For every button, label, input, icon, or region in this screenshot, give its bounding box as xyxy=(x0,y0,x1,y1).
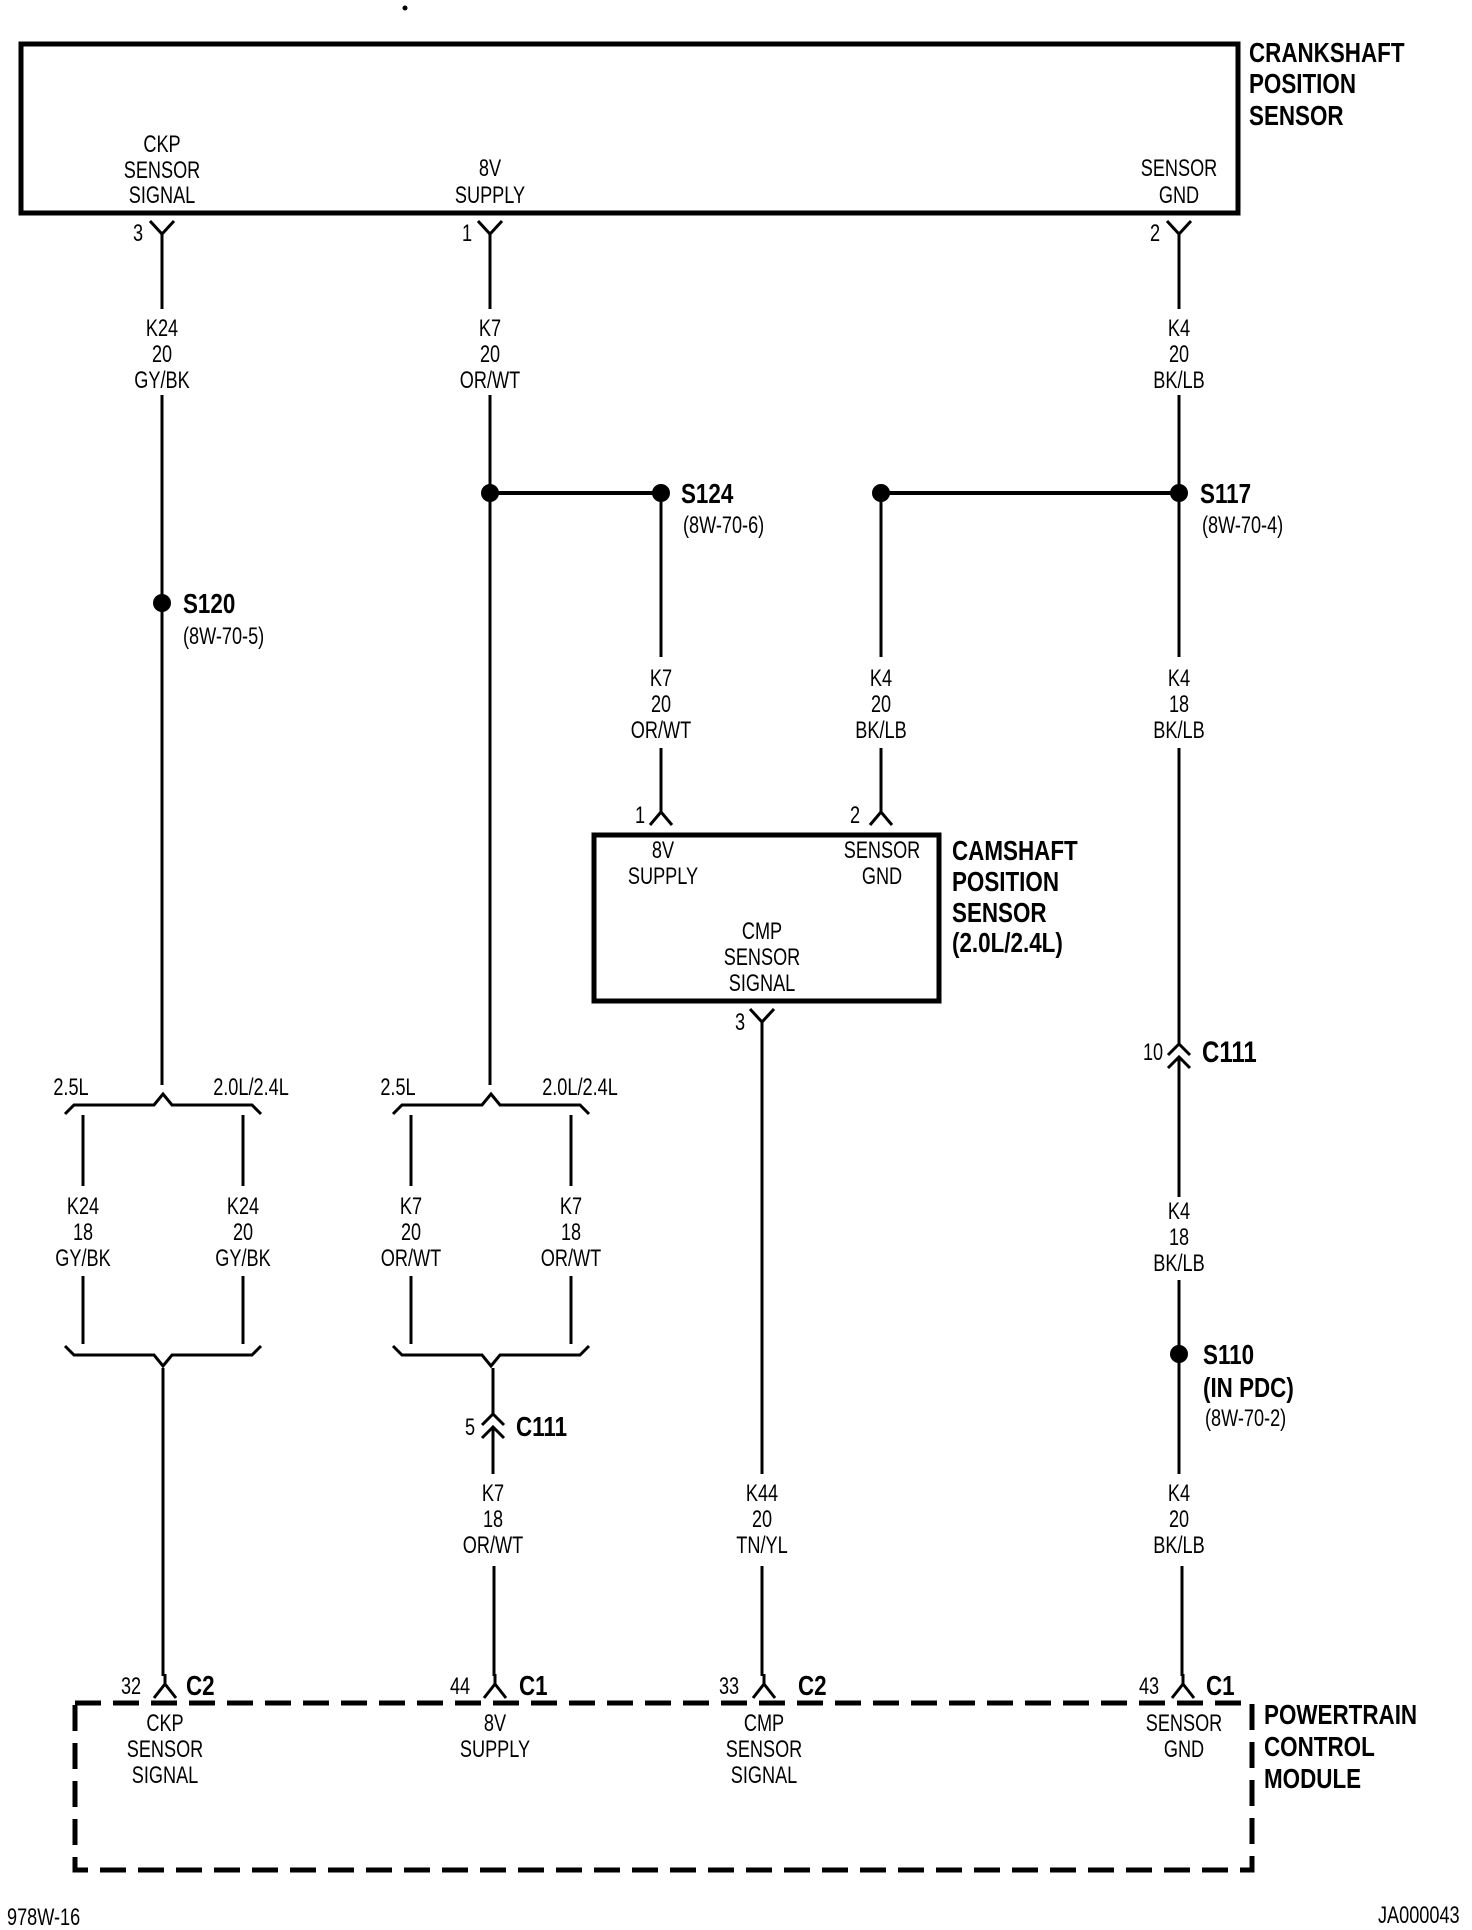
splice S110 xyxy=(1170,1339,1294,1432)
svg-text:18: 18 xyxy=(1169,1224,1189,1251)
svg-text:SENSOR: SENSOR xyxy=(127,1736,204,1763)
merge brace left xyxy=(65,1346,261,1366)
svg-text:CKP: CKP xyxy=(143,131,180,158)
wire label K7 20 OR/WT branch xyxy=(381,1193,442,1272)
svg-text:18: 18 xyxy=(483,1506,503,1533)
svg-text:SENSOR: SENSOR xyxy=(1249,100,1344,131)
svg-text:K7: K7 xyxy=(479,315,501,342)
wire C111 to label right xyxy=(1178,1058,1181,1197)
svg-text:POSITION: POSITION xyxy=(1249,68,1356,99)
svg-text:18: 18 xyxy=(1169,691,1189,718)
svg-text:POSITION: POSITION xyxy=(952,866,1059,897)
8V supply pin label xyxy=(455,155,525,209)
svg-text:20: 20 xyxy=(401,1219,421,1246)
svg-text:K7: K7 xyxy=(400,1193,422,1220)
svg-text:2.0L/2.4L: 2.0L/2.4L xyxy=(542,1074,618,1101)
svg-text:S117: S117 xyxy=(1200,478,1251,509)
pin 44 C1 connector xyxy=(450,1670,548,1701)
svg-text:20: 20 xyxy=(480,341,500,368)
cam pin 3 connector xyxy=(735,1009,774,1036)
wire to splice S110 xyxy=(1178,1280,1181,1354)
svg-text:OR/WT: OR/WT xyxy=(381,1245,442,1272)
svg-text:S120: S120 xyxy=(183,588,235,619)
wire to connector C111 pin 10 xyxy=(1178,748,1181,1044)
wire segment above cam pin 1 xyxy=(660,748,663,810)
camshaft position sensor title xyxy=(952,835,1078,958)
svg-text:K24: K24 xyxy=(146,315,178,342)
svg-text:(8W-70-6): (8W-70-6) xyxy=(683,512,764,539)
crankshaft position sensor box xyxy=(21,44,1238,213)
splice S124 xyxy=(652,478,764,539)
PCM CMP sensor signal label xyxy=(726,1710,803,1789)
wire label K24 20 GY/BK branch xyxy=(215,1193,270,1272)
svg-text:1: 1 xyxy=(635,802,645,829)
svg-text:(8W-70-2): (8W-70-2) xyxy=(1205,1405,1286,1432)
svg-text:BK/LB: BK/LB xyxy=(855,717,906,744)
svg-text:SENSOR: SENSOR xyxy=(724,944,801,971)
powertrain control module title xyxy=(1264,1699,1417,1794)
svg-text:978W-16: 978W-16 xyxy=(7,1904,80,1930)
CKP sensor signal pin label xyxy=(124,131,201,209)
crankshaft position sensor title xyxy=(1249,37,1405,131)
branch wire 2.5L left lower xyxy=(82,1276,85,1344)
connector C111 pin 10 xyxy=(1143,1036,1257,1069)
svg-text:BK/LB: BK/LB xyxy=(1153,1532,1204,1559)
svg-text:CMP: CMP xyxy=(742,918,782,945)
branch wire 2.5L mid lower xyxy=(410,1276,413,1344)
svg-text:20: 20 xyxy=(152,341,172,368)
branch wire 2.5L mid xyxy=(410,1115,413,1186)
wire S124 to camshaft pin 1 xyxy=(660,493,663,657)
svg-text:OR/WT: OR/WT xyxy=(463,1532,524,1559)
branch wire 2.0L left lower xyxy=(242,1276,245,1344)
svg-text:MODULE: MODULE xyxy=(1264,1763,1361,1794)
branch wire 2.0L mid xyxy=(570,1115,573,1186)
wire segment above cam pin 2 xyxy=(880,748,883,810)
cam 8V supply pin label xyxy=(628,837,698,890)
wire K7 mid segment xyxy=(489,395,492,1085)
svg-text:3: 3 xyxy=(133,220,143,247)
svg-text:SIGNAL: SIGNAL xyxy=(132,1762,199,1789)
svg-text:CONTROL: CONTROL xyxy=(1264,1731,1375,1762)
pin 32 C2 connector xyxy=(121,1670,215,1701)
svg-text:20: 20 xyxy=(871,691,891,718)
splice S117 xyxy=(1170,478,1283,539)
svg-text:CRANKSHAFT: CRANKSHAFT xyxy=(1249,37,1405,68)
wire label K24 18 GY/BK xyxy=(55,1193,110,1272)
svg-text:10: 10 xyxy=(1143,1039,1163,1066)
svg-text:8V: 8V xyxy=(652,837,674,864)
svg-text:K4: K4 xyxy=(870,665,892,692)
wire label K24 20 GY/BK xyxy=(134,315,189,394)
branch wire 2.0L mid lower xyxy=(570,1276,573,1344)
wire K44 lower segment xyxy=(761,1566,764,1676)
wire label K4 20 BK/LB xyxy=(1153,315,1204,394)
svg-text:SIGNAL: SIGNAL xyxy=(731,1762,798,1789)
svg-text:SIGNAL: SIGNAL xyxy=(729,970,796,997)
pin 33 C2 connector xyxy=(719,1670,827,1701)
svg-text:SENSOR: SENSOR xyxy=(726,1736,803,1763)
svg-text:GY/BK: GY/BK xyxy=(134,367,189,394)
wire to connector C111 pin 5 xyxy=(492,1368,495,1414)
wire S110 down xyxy=(1178,1354,1181,1474)
svg-text:CMP: CMP xyxy=(744,1710,784,1737)
svg-text:5: 5 xyxy=(465,1414,475,1441)
svg-text:S124: S124 xyxy=(681,478,734,509)
registration dot xyxy=(403,6,408,11)
svg-text:20: 20 xyxy=(233,1219,253,1246)
svg-text:GY/BK: GY/BK xyxy=(215,1245,270,1272)
svg-text:JA000043: JA000043 xyxy=(1378,1902,1460,1929)
wire label K4 18 BK/LB lower xyxy=(1153,1198,1204,1277)
PCM 8V supply label xyxy=(460,1710,530,1763)
svg-text:33: 33 xyxy=(719,1673,739,1700)
wire to PCM pin 44 xyxy=(493,1566,496,1676)
svg-text:43: 43 xyxy=(1139,1673,1159,1700)
cam pin 2 connector xyxy=(850,802,892,829)
PCM sensor gnd label xyxy=(1146,1710,1223,1763)
wire junction to S117 xyxy=(881,491,1179,495)
svg-text:K4: K4 xyxy=(1168,665,1190,692)
wire K44 long segment xyxy=(761,1022,764,1474)
branch wire 2.0L left xyxy=(242,1115,245,1186)
wire C111 to label xyxy=(492,1428,495,1474)
pin 3 connector xyxy=(133,220,174,247)
wire to PCM pin 43 xyxy=(1181,1566,1184,1676)
svg-text:20: 20 xyxy=(651,691,671,718)
svg-text:20: 20 xyxy=(752,1506,772,1533)
camshaft position sensor box xyxy=(594,835,939,1001)
svg-text:(2.0L/2.4L): (2.0L/2.4L) xyxy=(952,927,1063,958)
PCM CKP sensor signal label xyxy=(127,1710,204,1789)
svg-text:18: 18 xyxy=(73,1219,93,1246)
svg-text:OR/WT: OR/WT xyxy=(631,717,692,744)
svg-text:SUPPLY: SUPPLY xyxy=(455,182,525,209)
sheet number 978W-16 xyxy=(7,1904,80,1930)
wire label K7 18 OR/WT lower xyxy=(463,1480,524,1559)
wire K24 upper segment xyxy=(161,242,164,309)
svg-text:SENSOR: SENSOR xyxy=(1141,155,1218,182)
wire label K4 20 BK/LB lower xyxy=(1153,1480,1204,1559)
svg-text:C2: C2 xyxy=(186,1670,215,1701)
svg-text:S110: S110 xyxy=(1203,1339,1254,1370)
svg-text:SENSOR: SENSOR xyxy=(844,837,921,864)
wire label K7 20 OR/WT cam xyxy=(631,665,692,744)
engine split brace left xyxy=(53,1074,288,1114)
wire label K4 20 BK/LB cam xyxy=(855,665,906,744)
svg-text:SENSOR: SENSOR xyxy=(124,157,201,184)
svg-text:32: 32 xyxy=(121,1673,141,1700)
svg-text:(8W-70-4): (8W-70-4) xyxy=(1202,512,1283,539)
junction dot 8V supply xyxy=(481,484,499,502)
svg-text:SUPPLY: SUPPLY xyxy=(628,863,698,890)
svg-text:C111: C111 xyxy=(1202,1036,1257,1069)
svg-text:2.5L: 2.5L xyxy=(380,1074,415,1101)
svg-text:2: 2 xyxy=(1150,220,1160,247)
svg-text:3: 3 xyxy=(735,1009,745,1036)
svg-text:GY/BK: GY/BK xyxy=(55,1245,110,1272)
svg-text:GND: GND xyxy=(1164,1736,1204,1763)
svg-text:C111: C111 xyxy=(516,1411,567,1442)
wire label K44 20 TN/YL xyxy=(736,1480,787,1559)
svg-text:OR/WT: OR/WT xyxy=(541,1245,602,1272)
wire S117 down xyxy=(1178,493,1181,657)
svg-text:K4: K4 xyxy=(1168,315,1190,342)
svg-text:2.5L: 2.5L xyxy=(53,1074,88,1101)
svg-text:OR/WT: OR/WT xyxy=(460,367,521,394)
svg-text:CKP: CKP xyxy=(146,1710,183,1737)
svg-text:(8W-70-5): (8W-70-5) xyxy=(183,623,264,650)
engine split brace mid xyxy=(380,1074,617,1114)
svg-text:BK/LB: BK/LB xyxy=(1153,717,1204,744)
wire to PCM pin 32 xyxy=(162,1368,165,1676)
pin 1 connector xyxy=(462,220,502,247)
svg-text:SUPPLY: SUPPLY xyxy=(460,1736,530,1763)
svg-text:(IN PDC): (IN PDC) xyxy=(1203,1372,1294,1403)
splice S120 xyxy=(153,588,264,650)
svg-text:SIGNAL: SIGNAL xyxy=(129,182,196,209)
pin 2 connector xyxy=(1150,220,1191,247)
svg-text:SENSOR: SENSOR xyxy=(952,897,1047,928)
powertrain control module box xyxy=(75,1703,1252,1870)
svg-text:8V: 8V xyxy=(484,1710,506,1737)
connector C111 pin 5 xyxy=(465,1411,567,1442)
wire K7 upper segment xyxy=(489,242,492,309)
svg-text:K24: K24 xyxy=(227,1193,259,1220)
drawing number JA000043 xyxy=(1378,1902,1460,1929)
svg-text:K4: K4 xyxy=(1168,1198,1190,1225)
svg-text:K24: K24 xyxy=(67,1193,99,1220)
wire K24 mid segment xyxy=(161,395,164,1085)
wire K4 upper segment xyxy=(1178,242,1181,309)
wire junction to camshaft pin 2 xyxy=(880,493,883,657)
svg-text:C2: C2 xyxy=(798,1670,827,1701)
svg-text:K7: K7 xyxy=(482,1480,504,1507)
svg-text:BK/LB: BK/LB xyxy=(1153,367,1204,394)
svg-text:C1: C1 xyxy=(519,1670,548,1701)
svg-text:K44: K44 xyxy=(746,1480,778,1507)
junction dot sensor gnd xyxy=(872,484,890,502)
wire label K7 20 OR/WT xyxy=(460,315,521,394)
svg-text:8V: 8V xyxy=(479,155,501,182)
svg-text:44: 44 xyxy=(450,1673,470,1700)
wire K4 mid segment xyxy=(1178,395,1181,493)
wire label K7 18 OR/WT branch xyxy=(541,1193,602,1272)
svg-text:TN/YL: TN/YL xyxy=(736,1532,787,1559)
merge brace mid xyxy=(393,1346,589,1366)
branch wire 2.5L left xyxy=(82,1115,85,1186)
svg-text:K7: K7 xyxy=(650,665,672,692)
cam sensor gnd pin label xyxy=(844,837,921,890)
svg-text:1: 1 xyxy=(462,220,472,247)
svg-text:20: 20 xyxy=(1169,341,1189,368)
pin 43 C1 connector xyxy=(1139,1670,1235,1701)
svg-text:CAMSHAFT: CAMSHAFT xyxy=(952,835,1078,866)
svg-text:20: 20 xyxy=(1169,1506,1189,1533)
svg-text:BK/LB: BK/LB xyxy=(1153,1250,1204,1277)
svg-text:K4: K4 xyxy=(1168,1480,1190,1507)
wire label K4 18 BK/LB xyxy=(1153,665,1204,744)
svg-text:18: 18 xyxy=(561,1219,581,1246)
CMP sensor signal pin label xyxy=(724,918,801,997)
svg-text:GND: GND xyxy=(1159,182,1199,209)
svg-text:SENSOR: SENSOR xyxy=(1146,1710,1223,1737)
svg-text:POWERTRAIN: POWERTRAIN xyxy=(1264,1699,1417,1730)
cam pin 1 connector xyxy=(635,802,672,829)
svg-text:2.0L/2.4L: 2.0L/2.4L xyxy=(213,1074,289,1101)
wire to splice S124 xyxy=(490,491,661,495)
svg-text:GND: GND xyxy=(862,863,902,890)
svg-text:C1: C1 xyxy=(1206,1670,1235,1701)
svg-text:2: 2 xyxy=(850,802,860,829)
sensor gnd pin label xyxy=(1141,155,1218,209)
svg-text:K7: K7 xyxy=(560,1193,582,1220)
